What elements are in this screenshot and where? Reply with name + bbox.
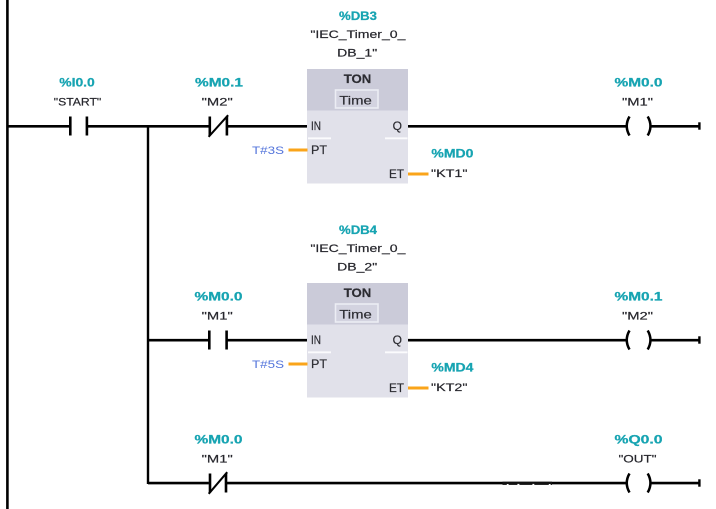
svg-text:Q: Q: [393, 119, 402, 133]
svg-text:Time: Time: [339, 307, 372, 321]
svg-text:"IEC_Timer_0_: "IEC_Timer_0_: [310, 243, 406, 255]
svg-text:"M2": "M2": [622, 311, 653, 323]
svg-text:"KT2": "KT2": [431, 382, 468, 394]
svg-text:PT: PT: [311, 357, 328, 371]
svg-text:"IEC_Timer_0_: "IEC_Timer_0_: [310, 29, 406, 41]
svg-text:%MD4: %MD4: [431, 363, 474, 375]
svg-text:%Q0.0: %Q0.0: [615, 435, 663, 447]
svg-text:%I0.0: %I0.0: [59, 78, 95, 90]
svg-text:TON: TON: [344, 72, 372, 86]
svg-text:%M0.0: %M0.0: [195, 292, 243, 304]
svg-text:T#3S: T#3S: [252, 145, 284, 157]
svg-text:"KT1": "KT1": [431, 168, 468, 180]
svg-text:IN: IN: [311, 119, 321, 133]
svg-text:"M1": "M1": [622, 97, 653, 109]
svg-text:ET: ET: [389, 167, 405, 181]
svg-text:%MD0: %MD0: [431, 149, 473, 161]
svg-text:"M2": "M2": [202, 97, 233, 109]
svg-text:IN: IN: [311, 333, 321, 347]
svg-text:%M0.0: %M0.0: [615, 78, 663, 90]
svg-text:DB_2": DB_2": [337, 261, 377, 273]
svg-text:PT: PT: [311, 143, 328, 157]
svg-text:DB_1": DB_1": [337, 47, 377, 59]
svg-text:%DB4: %DB4: [339, 225, 378, 237]
svg-text:%M0.1: %M0.1: [615, 292, 664, 304]
svg-text:%M0.0: %M0.0: [195, 435, 243, 447]
svg-text:Q: Q: [393, 333, 402, 347]
svg-text:"M1": "M1": [202, 454, 233, 466]
svg-text:TON: TON: [344, 286, 372, 300]
svg-text:Time: Time: [339, 93, 372, 107]
svg-text:ET: ET: [389, 381, 405, 395]
svg-text:T#5S: T#5S: [252, 359, 284, 371]
svg-text:"OUT": "OUT": [619, 454, 657, 466]
svg-text:%DB3: %DB3: [339, 11, 377, 23]
svg-text:"M1": "M1": [202, 311, 233, 323]
svg-text:%M0.1: %M0.1: [195, 78, 244, 90]
svg-text:"START": "START": [54, 97, 102, 109]
